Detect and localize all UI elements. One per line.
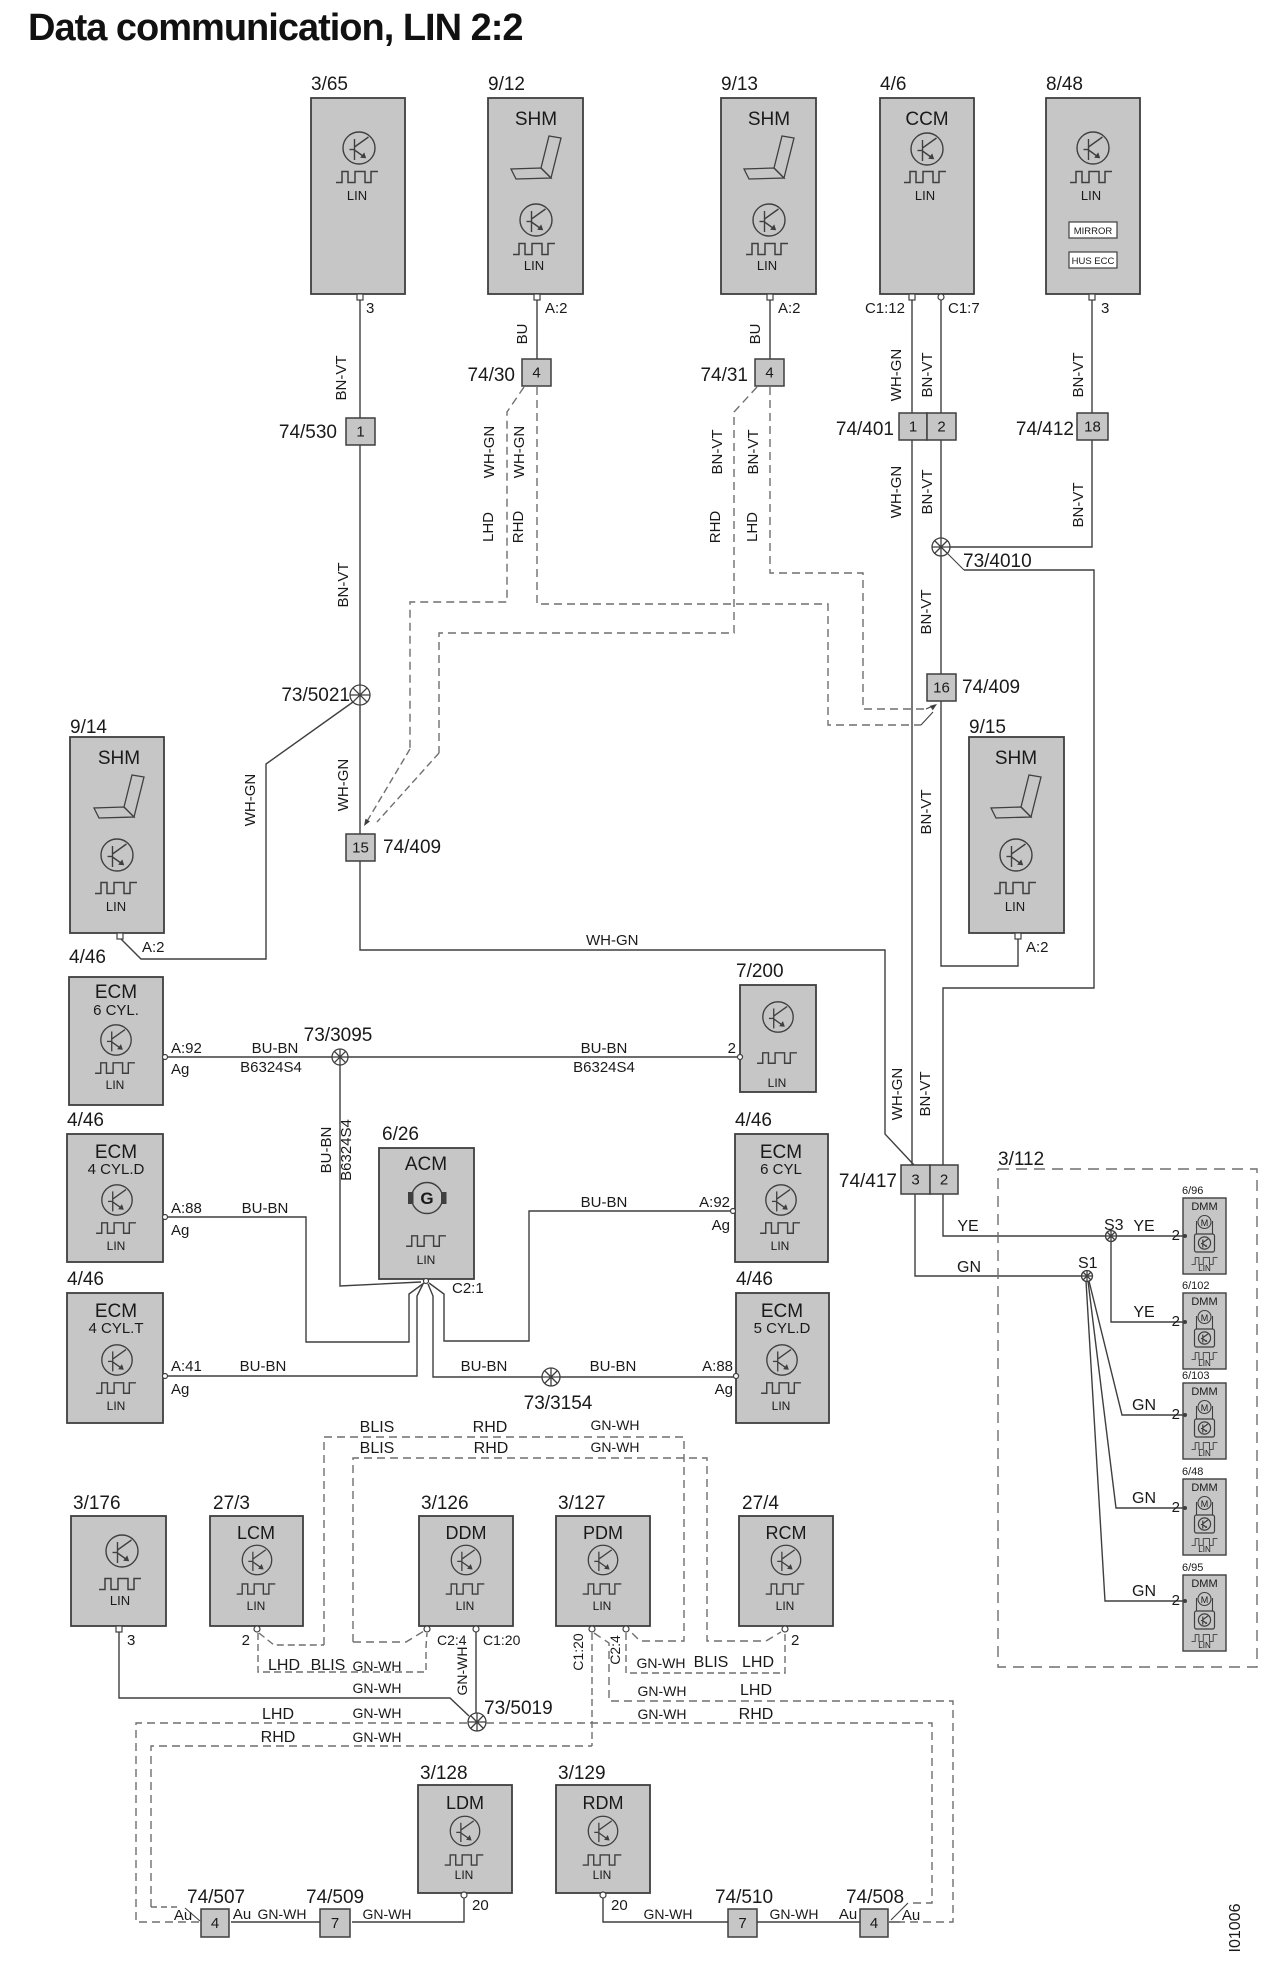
svg-text:BU-BN: BU-BN xyxy=(242,1200,289,1217)
svg-text:2: 2 xyxy=(940,1172,948,1189)
svg-text:18: 18 xyxy=(1084,419,1101,436)
svg-text:4/46: 4/46 xyxy=(69,947,106,968)
svg-text:LIN: LIN xyxy=(107,1399,126,1413)
wire YE from S3 to DMM 6/96 pin 2 xyxy=(1116,1235,1185,1237)
svg-text:LIN: LIN xyxy=(1198,1264,1211,1273)
svg-text:LIN: LIN xyxy=(1198,1359,1211,1368)
svg-text:LIN: LIN xyxy=(776,1599,795,1613)
svg-text:BU-BN: BU-BN xyxy=(581,1040,628,1057)
svg-text:73/4010: 73/4010 xyxy=(963,551,1032,572)
svg-text:GN-WH: GN-WH xyxy=(770,1906,819,1922)
svg-text:6/26: 6/26 xyxy=(382,1124,419,1145)
svg-text:Au: Au xyxy=(902,1907,920,1924)
dashed RHD tail into 74/507 xyxy=(151,1906,178,1908)
svg-text:3/127: 3/127 xyxy=(558,1493,606,1514)
svg-text:9/12: 9/12 xyxy=(488,74,525,95)
svg-text:SHM: SHM xyxy=(748,109,790,130)
svg-text:GN-WH: GN-WH xyxy=(353,1658,402,1674)
dashed wire LHD BLIS GN-WH from LCM to DDM C2:4 xyxy=(258,1633,427,1672)
svg-text:LIN: LIN xyxy=(1005,899,1025,914)
svg-text:GN-WH: GN-WH xyxy=(353,1729,402,1745)
svg-text:Au: Au xyxy=(174,1907,192,1924)
wire BU-BN from ECM 4 CYL.T to ACM pin xyxy=(168,1284,423,1376)
svg-text:DMM: DMM xyxy=(1191,1578,1217,1590)
svg-text:3/112: 3/112 xyxy=(998,1149,1044,1170)
svg-text:GN-WH: GN-WH xyxy=(591,1439,640,1455)
svg-text:BN-VT: BN-VT xyxy=(1070,483,1087,528)
svg-text:DDM: DDM xyxy=(446,1523,487,1543)
svg-text:6 CYL.: 6 CYL. xyxy=(93,1002,139,1019)
svg-text:BN-VT: BN-VT xyxy=(709,430,726,475)
svg-text:ACM: ACM xyxy=(405,1154,447,1175)
svg-text:LIN: LIN xyxy=(1198,1545,1211,1554)
svg-text:73/3154: 73/3154 xyxy=(524,1393,593,1414)
wire BN-VT from 74/412 down to splice 73/4010 xyxy=(950,440,1092,547)
svg-text:74/507: 74/507 xyxy=(187,1887,245,1908)
wire BN-VT from 74/401 pin 2 to splice 73/4010 xyxy=(940,440,942,538)
svg-text:9/13: 9/13 xyxy=(721,74,758,95)
wire BU-BN B6324S4 from ECM to splice 73/3095 xyxy=(168,1056,332,1058)
svg-text:LIN: LIN xyxy=(110,1593,130,1608)
svg-text:73/5019: 73/5019 xyxy=(484,1698,553,1719)
wire GN-WH from 74/510 to 74/508 xyxy=(757,1921,860,1923)
dashed bus GN-WH LHD from PDM C1:20 to 74/508 xyxy=(594,1633,953,1922)
svg-text:RHD: RHD xyxy=(739,1706,774,1723)
svg-text:C1:20: C1:20 xyxy=(483,1632,521,1648)
svg-text:4/6: 4/6 xyxy=(880,74,906,95)
svg-text:BN-VT: BN-VT xyxy=(335,563,352,608)
svg-text:2: 2 xyxy=(728,1040,736,1057)
svg-text:16: 16 xyxy=(933,680,950,697)
dashed wire from PDM pin C1:20 down xyxy=(591,1633,593,1746)
svg-text:74/401: 74/401 xyxy=(836,419,894,440)
dashed link from BLIS lower bus to DDM pin C2:4 xyxy=(353,1631,424,1642)
svg-text:74/510: 74/510 xyxy=(715,1887,773,1908)
svg-text:BN-VT: BN-VT xyxy=(918,590,935,635)
svg-text:74/509: 74/509 xyxy=(306,1887,364,1908)
svg-text:SHM: SHM xyxy=(995,748,1037,769)
wire WH-GN from CCM pin C1:12 to connector 74/401 xyxy=(911,300,913,413)
svg-text:GN-WH: GN-WH xyxy=(258,1906,307,1922)
wire BN-VT from splice down to connector 74/409 pin 16 xyxy=(940,556,942,674)
svg-text:6/95: 6/95 xyxy=(1182,1562,1203,1574)
wire WH-GN from 9/14 pin A:2 up to splice 73/5021 xyxy=(120,702,353,959)
svg-text:A:88: A:88 xyxy=(702,1358,733,1375)
svg-text:BU-BN: BU-BN xyxy=(461,1358,508,1375)
svg-text:A:92: A:92 xyxy=(171,1040,202,1057)
svg-text:ECM: ECM xyxy=(760,1142,802,1163)
svg-text:WH-GN: WH-GN xyxy=(511,426,528,479)
svg-text:LIN: LIN xyxy=(456,1599,475,1613)
svg-text:C2:4: C2:4 xyxy=(607,1635,623,1665)
svg-text:4 CYL.D: 4 CYL.D xyxy=(88,1161,145,1178)
svg-text:WH-GN: WH-GN xyxy=(335,759,352,812)
svg-text:BLIS: BLIS xyxy=(694,1654,729,1671)
svg-text:2: 2 xyxy=(937,419,945,436)
svg-text:WH-GN: WH-GN xyxy=(888,349,905,402)
svg-text:3/126: 3/126 xyxy=(421,1493,469,1514)
svg-text:ECM: ECM xyxy=(761,1301,803,1322)
dashed bus GN-WH LHD/RHD through splice 73/5019 to 74/507 and 74/508 xyxy=(136,1723,468,1922)
svg-text:Au: Au xyxy=(233,1906,251,1923)
svg-text:YE: YE xyxy=(1133,1304,1154,1321)
svg-text:A:2: A:2 xyxy=(778,300,801,317)
leader line for 73/4010 xyxy=(947,553,964,570)
dashed wire BN-VT RHD from 74/31 xyxy=(439,387,757,753)
wire YE from 74/417 pin 2 to splice S3 xyxy=(943,1194,1106,1236)
svg-text:DMM: DMM xyxy=(1191,1386,1217,1398)
svg-text:74/530: 74/530 xyxy=(279,422,337,443)
dashed wire BN-VT LHD from 74/31 xyxy=(770,387,926,709)
svg-text:BU-BN: BU-BN xyxy=(581,1194,628,1211)
svg-text:B6324S4: B6324S4 xyxy=(240,1059,302,1076)
wire GN-WH from LDM pin 20 to connector 74/509 xyxy=(352,1898,464,1922)
svg-text:Ag: Ag xyxy=(171,1381,189,1398)
wire GN-WH from DDM pin C1:20 to splice 73/5019 xyxy=(475,1632,477,1713)
svg-text:BU-BN: BU-BN xyxy=(240,1358,287,1375)
svg-text:2: 2 xyxy=(1172,1406,1180,1423)
svg-text:3/129: 3/129 xyxy=(558,1763,606,1784)
svg-text:3: 3 xyxy=(366,300,374,317)
splice 73/5021 xyxy=(350,685,370,705)
wire BU from 9/12 pin A:2 to connector 74/30 xyxy=(536,300,538,359)
svg-text:M: M xyxy=(1201,1403,1209,1413)
dashed wire BLIS RHD GN-WH (lower) from DDM to RCM xyxy=(353,1458,781,1642)
svg-text:B6324S4: B6324S4 xyxy=(573,1059,635,1076)
svg-text:74/409: 74/409 xyxy=(962,677,1020,698)
svg-text:6 CYL: 6 CYL xyxy=(760,1161,802,1178)
svg-text:BLIS: BLIS xyxy=(360,1419,395,1436)
svg-text:LIN: LIN xyxy=(455,1868,474,1882)
svg-text:74/508: 74/508 xyxy=(846,1887,904,1908)
svg-text:LIN: LIN xyxy=(1081,188,1101,203)
svg-text:B6324S4: B6324S4 xyxy=(338,1119,355,1181)
svg-text:GN-WH: GN-WH xyxy=(638,1706,687,1722)
dashed branch from LCM pin 2 to BLIS upper bus xyxy=(259,1633,324,1645)
svg-text:DMM: DMM xyxy=(1191,1296,1217,1308)
svg-text:A:88: A:88 xyxy=(171,1200,202,1217)
svg-text:LIN: LIN xyxy=(757,258,777,273)
svg-text:9/15: 9/15 xyxy=(969,717,1006,738)
svg-text:S1: S1 xyxy=(1078,1255,1098,1272)
svg-text:74/409: 74/409 xyxy=(383,837,441,858)
svg-text:ECM: ECM xyxy=(95,1301,137,1322)
svg-text:2: 2 xyxy=(1172,1227,1180,1244)
svg-text:PDM: PDM xyxy=(583,1523,623,1543)
svg-text:2: 2 xyxy=(1172,1313,1180,1330)
svg-text:LIN: LIN xyxy=(768,1076,787,1090)
svg-text:GN: GN xyxy=(1132,1490,1156,1507)
svg-text:9/14: 9/14 xyxy=(70,717,107,738)
svg-text:YE: YE xyxy=(957,1218,978,1235)
svg-text:LIN: LIN xyxy=(247,1599,266,1613)
wire BU-BN from ACM pin to splice 73/3154 xyxy=(428,1284,542,1377)
svg-text:RHD: RHD xyxy=(261,1729,296,1746)
svg-text:GN-WH: GN-WH xyxy=(591,1417,640,1433)
svg-text:LCM: LCM xyxy=(237,1523,275,1543)
svg-text:27/3: 27/3 xyxy=(213,1493,250,1514)
svg-text:6/48: 6/48 xyxy=(1182,1466,1203,1478)
svg-text:WH-GN: WH-GN xyxy=(889,1068,906,1121)
svg-text:BU: BU xyxy=(514,324,531,345)
svg-text:HUS ECC: HUS ECC xyxy=(1072,256,1115,267)
svg-text:6/96: 6/96 xyxy=(1182,1185,1203,1197)
wire GN from S1 to DMM 6/103 pin 2 xyxy=(1089,1281,1185,1415)
svg-text:RCM: RCM xyxy=(766,1523,807,1543)
svg-text:MIRROR: MIRROR xyxy=(1074,226,1113,237)
svg-text:LHD: LHD xyxy=(742,1654,774,1671)
svg-text:4: 4 xyxy=(211,1915,219,1932)
svg-text:SHM: SHM xyxy=(98,748,140,769)
svg-text:4: 4 xyxy=(532,365,540,382)
svg-text:RHD: RHD xyxy=(510,511,527,544)
svg-text:ECM: ECM xyxy=(95,982,137,1003)
svg-text:5 CYL.D: 5 CYL.D xyxy=(754,1320,811,1337)
svg-text:GN: GN xyxy=(957,1259,981,1276)
svg-text:3: 3 xyxy=(911,1172,919,1189)
svg-text:A:2: A:2 xyxy=(142,939,165,956)
svg-text:M: M xyxy=(1201,1218,1209,1228)
svg-text:4/46: 4/46 xyxy=(736,1269,773,1290)
wire WH-GN from 74/401 pin 1 down to connector 74/417 pin 3 xyxy=(911,440,913,1165)
svg-text:Ag: Ag xyxy=(171,1061,189,1078)
svg-text:GN-WH: GN-WH xyxy=(638,1683,687,1699)
wire GN from S1 to DMM 6/95 pin 2 xyxy=(1086,1281,1185,1601)
svg-text:BN-VT: BN-VT xyxy=(1070,353,1087,398)
svg-text:C1:12: C1:12 xyxy=(865,300,905,317)
svg-text:LIN: LIN xyxy=(524,258,544,273)
svg-text:CCM: CCM xyxy=(905,109,948,130)
dashed diagonal into 74/409 pin 15 xyxy=(377,753,439,822)
svg-text:BU: BU xyxy=(747,324,764,345)
wire WH-GN from splice 73/5021 to connector 74/409 pin 15 xyxy=(359,705,361,834)
splice 73/5019 xyxy=(468,1713,486,1731)
svg-text:3/176: 3/176 xyxy=(73,1493,121,1514)
wire BN-VT from 8/48 pin 3 to connector 74/412 xyxy=(1091,300,1093,413)
splice 73/3154 xyxy=(542,1368,560,1386)
svg-text:74/412: 74/412 xyxy=(1016,419,1074,440)
svg-text:LIN: LIN xyxy=(106,899,126,914)
svg-text:LHD: LHD xyxy=(268,1657,300,1674)
wire BN-VT from splice 73/4010 to connector 74/417 pin 2 xyxy=(943,570,1094,1165)
svg-text:GN-WH: GN-WH xyxy=(363,1906,412,1922)
wire BU-BN from splice 73/3154 to ECM 5 CYL.D xyxy=(560,1376,734,1378)
svg-text:C1:7: C1:7 xyxy=(948,300,980,317)
svg-text:RHD: RHD xyxy=(474,1440,509,1457)
svg-text:C1:20: C1:20 xyxy=(570,1633,586,1671)
svg-text:2: 2 xyxy=(1172,1499,1180,1516)
svg-text:4: 4 xyxy=(870,1915,878,1932)
svg-text:Ag: Ag xyxy=(171,1222,189,1239)
svg-text:I01006: I01006 xyxy=(1227,1903,1244,1952)
svg-text:4/46: 4/46 xyxy=(67,1110,104,1131)
svg-text:3/128: 3/128 xyxy=(420,1763,468,1784)
svg-text:BU-BN: BU-BN xyxy=(590,1358,637,1375)
connector 74/409 pin 16 xyxy=(927,674,956,701)
wire BU from 9/13 pin A:2 to connector 74/31 xyxy=(769,300,771,359)
svg-text:2: 2 xyxy=(791,1632,799,1649)
svg-text:GN-WH: GN-WH xyxy=(353,1705,402,1721)
svg-text:LIN: LIN xyxy=(106,1078,125,1092)
svg-text:G: G xyxy=(420,1189,433,1208)
svg-text:4 CYL.T: 4 CYL.T xyxy=(88,1320,143,1337)
svg-text:SHM: SHM xyxy=(515,109,557,130)
wire BU-BN B6324S4 from splice to 7/200 pin 2 xyxy=(348,1056,738,1058)
svg-text:LIN: LIN xyxy=(417,1253,436,1267)
svg-text:Au: Au xyxy=(839,1906,857,1923)
svg-text:A:2: A:2 xyxy=(545,300,568,317)
svg-text:YE: YE xyxy=(1133,1218,1154,1235)
wire WH-GN from 74/409 pin 15 down and right xyxy=(360,861,914,1165)
svg-text:A:92: A:92 xyxy=(699,1194,730,1211)
solid jog from 74/508 to dashed RHD xyxy=(889,1921,900,1923)
svg-text:GN-WH: GN-WH xyxy=(644,1906,693,1922)
svg-text:M: M xyxy=(1201,1499,1209,1509)
svg-text:LIN: LIN xyxy=(593,1868,612,1882)
wire GN-WH from RDM pin 20 to connector 74/510 xyxy=(603,1898,728,1922)
svg-text:BN-VT: BN-VT xyxy=(919,353,936,398)
svg-text:LIN: LIN xyxy=(107,1239,126,1253)
arrow into 74/409 pin 16 xyxy=(930,702,939,710)
svg-text:Ag: Ag xyxy=(712,1217,730,1234)
svg-text:A:2: A:2 xyxy=(1026,939,1049,956)
wire BN-VT from CCM pin C1:7 to connector 74/401 xyxy=(940,300,942,413)
svg-text:WH-GN: WH-GN xyxy=(481,426,498,479)
svg-text:LIN: LIN xyxy=(1198,1449,1211,1458)
dashed bus GN-WH BLIS LHD from PDM C2:4 to RCM pin 2 xyxy=(626,1633,785,1673)
svg-text:BU-BN: BU-BN xyxy=(318,1127,335,1174)
svg-text:BLIS: BLIS xyxy=(311,1657,346,1674)
splice 73/3095 xyxy=(332,1049,348,1065)
svg-text:7/200: 7/200 xyxy=(736,961,784,982)
svg-text:6/103: 6/103 xyxy=(1182,1370,1210,1382)
wire GN-WH from 74/509 to 74/507 xyxy=(231,1921,320,1923)
svg-text:74/31: 74/31 xyxy=(700,365,748,386)
wire GN-WH from 3/176 pin 3 to splice 73/5019 xyxy=(119,1632,469,1716)
svg-text:GN: GN xyxy=(1132,1583,1156,1600)
svg-text:WH-GN: WH-GN xyxy=(586,932,639,949)
svg-text:GN: GN xyxy=(1132,1397,1156,1414)
svg-text:BLIS: BLIS xyxy=(360,1440,395,1457)
svg-text:LDM: LDM xyxy=(446,1793,484,1813)
svg-text:ECM: ECM xyxy=(95,1142,137,1163)
wire GN from 74/417 pin 3 to splice S1 xyxy=(915,1194,1082,1276)
svg-text:4: 4 xyxy=(765,365,773,382)
svg-text:6/102: 6/102 xyxy=(1182,1280,1210,1292)
svg-text:73/5021: 73/5021 xyxy=(281,685,350,706)
dashed bus GN-WH RHD from 74/507 to PDM C1:20 xyxy=(151,1746,592,1907)
svg-text:LIN: LIN xyxy=(915,188,935,203)
svg-text:LHD: LHD xyxy=(480,512,497,542)
svg-text:4/46: 4/46 xyxy=(735,1110,772,1131)
wire BN-VT from 74/409 pin 16 down to 9/15 xyxy=(941,701,1018,966)
svg-text:GN-WH: GN-WH xyxy=(637,1655,686,1671)
wire GN from S1 to DMM 6/48 pin 2 xyxy=(1088,1281,1185,1508)
svg-text:LIN: LIN xyxy=(771,1239,790,1253)
svg-text:BN-VT: BN-VT xyxy=(919,470,936,515)
wire BU-BN from ECM 4 CYL.D to ACM xyxy=(168,1217,424,1342)
svg-text:BN-VT: BN-VT xyxy=(333,356,350,401)
svg-text:WH-GN: WH-GN xyxy=(242,774,259,827)
svg-text:M: M xyxy=(1201,1313,1209,1323)
svg-text:LHD: LHD xyxy=(740,1682,772,1699)
svg-text:RHD: RHD xyxy=(707,511,724,544)
jog into 74/409 pin 16 xyxy=(921,712,933,725)
svg-text:7: 7 xyxy=(738,1915,746,1932)
svg-text:2: 2 xyxy=(1172,1592,1180,1609)
svg-text:BN-VT: BN-VT xyxy=(917,1072,934,1117)
wire YE from S3 down to DMM 6/102 pin 2 xyxy=(1111,1241,1185,1322)
svg-text:7: 7 xyxy=(331,1915,339,1932)
svg-text:74/417: 74/417 xyxy=(839,1171,897,1192)
svg-text:BN-VT: BN-VT xyxy=(918,790,935,835)
dashed wire WH-GN LHD from 74/30 xyxy=(410,387,524,749)
svg-text:C2:4: C2:4 xyxy=(437,1632,467,1648)
dashed wire WH-GN RHD from 74/30 xyxy=(537,387,921,725)
svg-text:3/65: 3/65 xyxy=(311,74,348,95)
svg-text:LHD: LHD xyxy=(744,512,761,542)
svg-text:74/30: 74/30 xyxy=(467,365,515,386)
svg-text:GN-WH: GN-WH xyxy=(454,1647,470,1696)
svg-text:8/48: 8/48 xyxy=(1046,74,1083,95)
svg-text:Data communication, LIN 2:2: Data communication, LIN 2:2 xyxy=(28,7,523,49)
svg-text:A:41: A:41 xyxy=(171,1358,202,1375)
svg-text:Ag: Ag xyxy=(715,1381,733,1398)
svg-text:BN-VT: BN-VT xyxy=(745,430,762,475)
svg-text:LIN: LIN xyxy=(593,1599,612,1613)
dashed diagonal into 74/409 pin 15 with arrow xyxy=(366,749,410,823)
svg-text:C2:1: C2:1 xyxy=(452,1280,484,1297)
svg-text:RHD: RHD xyxy=(473,1419,508,1436)
svg-text:M: M xyxy=(1201,1595,1209,1605)
svg-text:3: 3 xyxy=(127,1632,135,1649)
svg-text:LHD: LHD xyxy=(262,1706,294,1723)
svg-text:20: 20 xyxy=(472,1897,489,1914)
svg-text:LIN: LIN xyxy=(1198,1641,1211,1650)
svg-text:GN-WH: GN-WH xyxy=(353,1680,402,1696)
svg-text:1: 1 xyxy=(909,419,917,436)
svg-text:4/46: 4/46 xyxy=(67,1269,104,1290)
svg-text:3: 3 xyxy=(1101,300,1109,317)
wire BN-VT from 3/65 pin 3 to connector 74/530 xyxy=(359,300,361,418)
svg-text:1: 1 xyxy=(356,424,364,441)
dashed wire BLIS RHD GN-WH (upper) from LCM to PDM xyxy=(324,1437,684,1645)
svg-text:WH-GN: WH-GN xyxy=(888,466,905,519)
svg-text:LIN: LIN xyxy=(347,188,367,203)
svg-text:73/3095: 73/3095 xyxy=(304,1025,373,1046)
wire BN-VT from 74/530 to splice 73/5021 xyxy=(359,445,361,686)
connector 74/409 pin 15 xyxy=(346,834,375,861)
svg-text:BU-BN: BU-BN xyxy=(252,1040,299,1057)
svg-text:2: 2 xyxy=(242,1632,250,1649)
svg-text:20: 20 xyxy=(611,1897,628,1914)
svg-text:RDM: RDM xyxy=(583,1793,624,1813)
svg-text:DMM: DMM xyxy=(1191,1482,1217,1494)
wire BU-BN B6324S4 from splice 73/3095 down to ACM xyxy=(340,1065,421,1286)
svg-text:27/4: 27/4 xyxy=(742,1493,779,1514)
svg-text:LIN: LIN xyxy=(772,1399,791,1413)
svg-text:DMM: DMM xyxy=(1191,1201,1217,1213)
wire BU-BN from ECM 6 CYL right to ACM xyxy=(429,1211,730,1341)
svg-text:15: 15 xyxy=(352,840,369,857)
splice 73/4010 xyxy=(932,538,950,556)
